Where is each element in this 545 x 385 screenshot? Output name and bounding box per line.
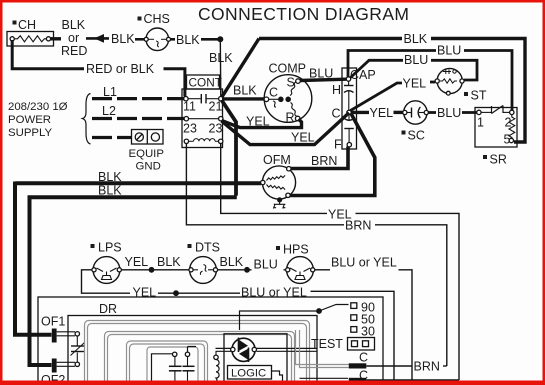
CHS label	[138, 12, 170, 26]
svg-text:208/230 1Ø: 208/230 1Ø	[8, 101, 68, 113]
L1 label	[103, 85, 117, 99]
svg-text:EQUIP: EQUIP	[129, 148, 164, 160]
start capacitor SC	[403, 101, 429, 124]
svg-text:SR: SR	[490, 153, 507, 167]
C terminal 1	[359, 351, 368, 365]
svg-text:S: S	[287, 76, 295, 90]
svg-text:CONNECTION DIAGRAM: CONNECTION DIAGRAM	[198, 4, 409, 24]
svg-text:SC: SC	[408, 129, 425, 143]
start relay SR	[475, 106, 517, 148]
svg-text:LOGIC: LOGIC	[231, 368, 266, 380]
svg-text:BLK: BLK	[157, 255, 181, 269]
low pressure switch LPS	[92, 257, 122, 284]
defrost thermostat DTS	[189, 257, 218, 284]
svg-text:BLU: BLU	[309, 67, 333, 81]
svg-text:ST: ST	[471, 89, 487, 103]
start thermistor ST	[435, 68, 464, 95]
wire: YEL CAP C to SC	[351, 111, 369, 114]
wire: YEL row (second) with junction and BLU or YEL	[133, 286, 157, 300]
svg-text:BLU: BLU	[254, 258, 278, 272]
outdoor fan motor OFM	[261, 166, 296, 199]
brace	[83, 94, 91, 145]
wire: BLK lower run left to OF2 drop	[30, 197, 237, 365]
svg-text:C: C	[332, 107, 341, 121]
power supply label	[8, 101, 68, 139]
HPS label	[276, 243, 309, 257]
wire: YEL row from CONT to right side down	[221, 143, 327, 213]
compressor COMP	[264, 75, 312, 123]
inductor	[214, 348, 232, 382]
svg-text:COMP: COMP	[269, 62, 307, 76]
svg-text:C: C	[359, 351, 368, 365]
svg-text:R: R	[286, 111, 295, 125]
svg-text:BLK: BLK	[176, 33, 200, 47]
LOGIC box	[228, 366, 272, 380]
svg-text:OFM: OFM	[263, 153, 291, 167]
ground symbol	[273, 201, 285, 209]
svg-text:BLK: BLK	[62, 18, 86, 32]
ST label	[464, 89, 487, 103]
svg-text:BRN: BRN	[414, 360, 440, 374]
svg-text:BLU: BLU	[437, 106, 461, 120]
wire: DTS to HPS with BLK BLU labels	[218, 269, 252, 271]
defrost board DR outer box	[38, 297, 383, 385]
contactor CONT label box	[187, 75, 220, 89]
svg-text:2: 2	[505, 116, 512, 130]
wire to CHS	[135, 38, 144, 41]
wire: OFM bottom to CAP C via right riser	[290, 114, 375, 196]
CONT contact 11-21	[184, 94, 223, 103]
junction node (BLK drop to CONT 21)	[217, 36, 223, 42]
svg-text:DR: DR	[99, 302, 117, 316]
svg-text:BLK: BLK	[220, 255, 244, 269]
wire: vertical BLK junction down to CONT 21	[219, 39, 222, 98]
svg-text:BRN: BRN	[311, 154, 337, 168]
wire: BLK top line CONT21 diag to SR5 via right side	[259, 37, 402, 40]
crankcase heater switch CHS	[144, 28, 170, 51]
quick-connect arrow	[86, 34, 109, 43]
svg-text:F: F	[334, 138, 342, 152]
svg-text:BLU: BLU	[404, 53, 428, 67]
OFM ground terminal	[277, 197, 282, 202]
svg-text:YEL: YEL	[403, 77, 427, 91]
L2 label	[102, 104, 116, 118]
defrost capacitor between OF1 OF2	[57, 332, 85, 367]
triac symbol	[231, 338, 257, 363]
svg-text:CONT: CONT	[189, 76, 222, 90]
wire L1 (dashed field wiring)	[92, 97, 184, 100]
wire: BLK CONT21 diag down to lower run	[222, 100, 237, 196]
run capacitor CAP box	[342, 68, 357, 149]
wire: LPS to DTS with YEL BLK labels	[122, 269, 189, 271]
gray trace rectangles	[85, 321, 310, 385]
svg-text:BLK: BLK	[98, 170, 122, 184]
wire: CH left terminal down and right (RED or BLK)	[12, 40, 84, 69]
SC label	[402, 129, 425, 143]
DR label	[99, 302, 117, 316]
svg-text:or: or	[68, 31, 79, 45]
wire: YEL CAP C diag to ST left	[351, 83, 403, 111]
wire: BLU COMP S to CAP H	[300, 79, 346, 80]
wire: BLU1 CAP H riser to SR2	[348, 51, 436, 78]
svg-text:1: 1	[477, 116, 484, 130]
svg-text:LPS: LPS	[98, 241, 122, 255]
svg-text:SUPPLY: SUPPLY	[8, 127, 53, 139]
wire: BLK CONT21 to COMP C	[222, 97, 265, 100]
trace to 90 pin with junction	[240, 311, 318, 330]
svg-text:YEL: YEL	[125, 255, 149, 269]
wire: YEL CONT23 diag to CAP C	[222, 113, 350, 145]
svg-text:L2: L2	[102, 104, 116, 118]
LPS label	[91, 241, 122, 255]
gray trace to C terminal	[296, 330, 350, 368]
logic module box	[224, 334, 287, 384]
wire: BLU SC to SR1	[429, 111, 437, 114]
CAP labels	[332, 68, 376, 152]
svg-text:YEL: YEL	[370, 106, 394, 120]
svg-text:YEL: YEL	[246, 115, 270, 129]
svg-text:RED: RED	[61, 44, 87, 58]
wire ground lead (dashed)	[92, 136, 131, 139]
svg-text:CH: CH	[18, 18, 36, 32]
svg-text:BLU or YEL: BLU or YEL	[331, 256, 397, 270]
svg-text:C: C	[269, 86, 278, 100]
OF2 terminal	[41, 373, 65, 385]
svg-text:11: 11	[183, 100, 196, 114]
svg-text:BLK: BLK	[404, 32, 428, 46]
wire: BRN row from CONT to right side down	[186, 143, 344, 225]
wire: HPS right, BLU or YEL, drop at right	[315, 269, 330, 271]
svg-text:L1: L1	[103, 85, 117, 99]
svg-text:BLK: BLK	[111, 32, 135, 46]
svg-text:BLK: BLK	[233, 84, 257, 98]
COMP labels	[269, 62, 307, 125]
OFM label	[263, 153, 291, 167]
junction node	[149, 267, 155, 273]
equipment ground lug EQUIP GND	[132, 130, 164, 145]
BLK BLK stacked labels	[98, 170, 122, 198]
svg-text:CHS: CHS	[144, 12, 170, 26]
TEST header	[311, 337, 343, 351]
svg-text:DTS: DTS	[195, 241, 220, 255]
svg-text:23: 23	[209, 122, 223, 136]
pin labels 23 23	[183, 122, 222, 136]
wire L2 (dashed)	[92, 117, 184, 120]
wire: CH right terminal stub	[51, 37, 61, 40]
wire: BRN OFM to CAP F	[291, 147, 349, 169]
svg-text:POWER: POWER	[8, 114, 51, 126]
svg-text:GND: GND	[136, 161, 161, 173]
svg-text:23: 23	[183, 122, 197, 136]
svg-text:HPS: HPS	[283, 243, 309, 257]
contactor CONT main box	[182, 89, 223, 148]
label BLK or RED	[61, 18, 87, 58]
SR labels	[477, 116, 512, 147]
svg-text:BLK: BLK	[98, 184, 122, 198]
high pressure switch HPS	[286, 257, 315, 284]
wire CHS right to junction	[171, 38, 176, 41]
svg-text:H: H	[332, 83, 341, 97]
OF1 terminal	[41, 315, 65, 329]
wire: RED or BLK to CONT 11	[164, 69, 185, 97]
svg-text:30: 30	[361, 325, 375, 339]
wire: C to BRN	[366, 365, 412, 367]
crankcase heater CH	[7, 32, 54, 47]
wire: diagonal CONT 21 up to top BLK line	[221, 39, 259, 99]
pin labels 11 21	[183, 100, 222, 114]
C terminal 2	[359, 369, 368, 383]
CONT terminals 23-23	[184, 117, 223, 121]
DR inner box	[68, 316, 317, 385]
DTS label	[188, 241, 221, 255]
wire: LPS left drop to YEL row	[82, 270, 131, 293]
label BLK (left of CHS)	[111, 32, 135, 46]
triac right leads	[257, 347, 317, 349]
CONT coil	[184, 139, 223, 144]
svg-text:5: 5	[504, 133, 511, 147]
svg-text:OF1: OF1	[41, 315, 65, 329]
svg-text:RED or BLK: RED or BLK	[86, 62, 155, 76]
wire: BLU2 CAP H diag to ST right	[351, 60, 404, 77]
wire: YEL CONT23 to COMP R riser	[222, 119, 302, 128]
svg-text:BRN: BRN	[345, 219, 371, 233]
svg-text:BLU: BLU	[437, 44, 461, 58]
board capacitors	[152, 347, 197, 385]
wire: BLK OF1 drop to OFM left	[15, 182, 52, 335]
jumper pins 90 50 30	[351, 303, 357, 332]
CH label	[13, 18, 37, 32]
svg-text:YEL: YEL	[291, 131, 315, 145]
